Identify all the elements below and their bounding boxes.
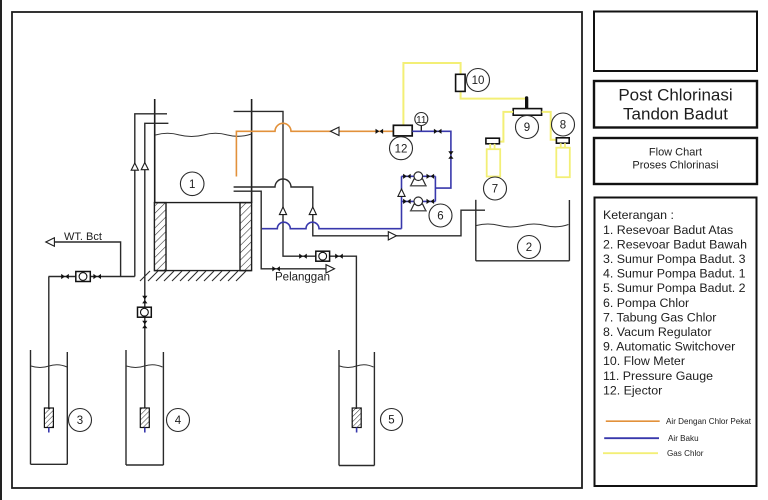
reservoir R1 base top line [154, 202, 251, 204]
legend box Keterangan [595, 198, 757, 487]
svg-text:9. Automatic Switchover: 9. Automatic Switchover [603, 340, 735, 354]
right panel title box [594, 81, 757, 128]
flow meter FM-3 on WT header [76, 272, 91, 282]
valve V-4b on well-4 pipe [142, 321, 147, 329]
pump manifold right header [434, 176, 436, 201]
valve bottom-right [427, 199, 435, 204]
svg-text:10: 10 [472, 75, 485, 87]
svg-text:8: 8 [560, 120, 566, 132]
reservoir R1 left wall [154, 99, 156, 203]
svg-text:Air Dengan Chlor Pekat: Air Dengan Chlor Pekat [666, 417, 752, 426]
well 3 tank [31, 350, 68, 464]
legend yellow sample [603, 449, 704, 458]
svg-text:WT. Bct: WT. Bct [64, 231, 102, 243]
valve top-left [403, 174, 411, 179]
vacuum regulator 8 on spare cylinder [556, 138, 569, 143]
node 1 circle [180, 172, 204, 196]
wire: R1 outlet to R2 [234, 179, 485, 236]
node 4 circle [167, 409, 190, 432]
svg-text:2: 2 [526, 242, 532, 254]
valve V-5b on well-5 line [335, 254, 343, 259]
well 4 tank [126, 350, 163, 465]
svg-text:9: 9 [524, 122, 530, 134]
legend orange sample [606, 417, 752, 426]
svg-text:2. Resevoar Badut Bawah: 2. Resevoar Badut Bawah [603, 237, 747, 251]
valve top-right [427, 174, 435, 179]
svg-text:Flow Chart: Flow Chart [649, 147, 702, 159]
wire: R1 outlet to customers [234, 191, 326, 269]
svg-text:Pelanggan: Pelanggan [275, 272, 330, 284]
svg-text:1: 1 [189, 179, 195, 191]
flow arrow up on riser x283 [279, 207, 286, 215]
flow arrow up on well-4 pipe [141, 163, 148, 170]
valve on blue line [434, 129, 442, 134]
svg-text:12. Ejector: 12. Ejector [603, 383, 662, 397]
svg-text:3. Sumur Pompa Badut. 3: 3. Sumur Pompa Badut. 3 [603, 252, 746, 266]
node 12 circle [390, 137, 413, 160]
flow arrow up on well-3 pipe [131, 163, 138, 170]
well 5 submersible pump [352, 408, 361, 433]
pump branch bottom [402, 200, 436, 202]
svg-text:6: 6 [437, 211, 443, 223]
svg-text:11: 11 [416, 115, 427, 126]
well 4 submersible pump [140, 408, 149, 433]
well 5 water level [340, 365, 374, 368]
pump P2 [410, 197, 427, 211]
reservoir R1 right wall [251, 99, 253, 203]
reservoir R1 base left column [154, 203, 166, 271]
svg-text:Tandon Badut: Tandon Badut [623, 105, 728, 124]
gas chlor yellow right branch [542, 112, 557, 140]
right panel subtitle box [594, 138, 757, 184]
node 3 circle [69, 409, 92, 432]
ground hatch under reservoir [140, 271, 246, 281]
right panel empty title block [594, 12, 757, 72]
valve bottom-left [403, 199, 411, 204]
node 9 circle [516, 116, 539, 139]
svg-text:8. Vacum Regulator: 8. Vacum Regulator [603, 325, 712, 339]
page left edge [0, 0, 2, 500]
valve on blue drop [448, 151, 453, 159]
flow meter FM10 body [456, 74, 466, 91]
svg-text:4: 4 [175, 415, 182, 427]
wire: well 5 discharge into R1 (riser x283) [234, 111, 357, 409]
svg-text:Air Baku: Air Baku [668, 434, 699, 443]
flow meter FM-5 on well-5 line [316, 251, 330, 261]
svg-text:4. Sumur Pompa Badut. 1: 4. Sumur Pompa Badut. 1 [603, 267, 746, 281]
svg-text:7: 7 [492, 184, 498, 196]
flow arrow left on orange line [331, 127, 340, 135]
pump P1 [410, 172, 427, 186]
valve V-4a on well-4 pipe [142, 296, 147, 304]
svg-text:5. Sumur Pompa Badut. 2: 5. Sumur Pompa Badut. 2 [603, 281, 746, 295]
svg-text:6. Pompa Chlor: 6. Pompa Chlor [603, 296, 689, 310]
wire: WT.Bct branch [55, 242, 121, 277]
gas chlor yellow main line [403, 63, 526, 125]
valve V-3b on WT header [93, 274, 101, 279]
main diagram frame [12, 12, 582, 488]
wire: WT.Bct header line [49, 276, 135, 278]
reservoir R2 tank [476, 200, 570, 261]
cylinder 7 neck [490, 144, 494, 149]
svg-text:Keterangan :: Keterangan : [603, 208, 674, 222]
vacuum regulator on cylinder 7 [486, 138, 500, 144]
ejector U12 body [393, 125, 412, 136]
arrow to Pelanggan [326, 265, 335, 273]
node 10 circle [467, 69, 490, 92]
valve V-5a on well-5 line [299, 254, 307, 259]
svg-text:Proses Chlorinasi: Proses Chlorinasi [632, 160, 718, 172]
reservoir R2 water level [476, 224, 568, 227]
flow arrow right to R2 [388, 232, 396, 240]
spare cylinder neck [561, 143, 565, 148]
gas chlor yellow left branch [499, 112, 513, 142]
svg-text:5: 5 [388, 415, 394, 427]
reservoir R1 base bottom line [154, 270, 251, 272]
node 6 circle [429, 204, 452, 227]
svg-text:Post Chlorinasi: Post Chlorinasi [618, 86, 732, 105]
valve V-P on customer line [272, 266, 280, 271]
node 2 circle [518, 236, 541, 259]
pump manifold left header [401, 176, 403, 228]
node 7 circle [484, 177, 507, 200]
blue suction line from R1 [262, 222, 402, 228]
wire: inlet pipe from well 4 into R1 [145, 123, 169, 408]
wire: inlet pipe from well 3 into R1 [135, 114, 167, 277]
svg-text:Gas Chlor: Gas Chlor [667, 449, 704, 458]
svg-text:3: 3 [77, 415, 83, 427]
automatic switchover U9 body [513, 109, 541, 116]
well 3 water level [31, 365, 67, 368]
blue water line ejector to pumps [412, 131, 451, 188]
svg-text:11. Pressure Gauge: 11. Pressure Gauge [603, 369, 713, 383]
valve on orange line [376, 129, 384, 134]
flow arrow up on riser x313 [309, 207, 316, 215]
legend blue sample [604, 434, 698, 443]
pump branch top [402, 175, 436, 177]
gas cylinder 7 [487, 149, 501, 176]
automatic switchover U9 riser [525, 96, 528, 108]
well 3 submersible pump [44, 408, 53, 433]
node 5 circle [381, 409, 403, 431]
reservoir R1 water level [156, 133, 252, 136]
flow meter FM-4 on well-4 pipe [138, 307, 152, 317]
well 5 tank [339, 350, 374, 466]
arrow to WT.Bct [46, 238, 55, 246]
well 4 water level [127, 365, 163, 368]
svg-text:7. Tabung Gas Chlor: 7. Tabung Gas Chlor [603, 310, 716, 324]
wire: well 3 riser [48, 277, 50, 410]
reservoir R1 base right column [240, 203, 252, 271]
svg-text:12: 12 [395, 143, 408, 155]
orange chlorinated water line [236, 123, 393, 176]
flow arrow up on suction header [398, 189, 405, 196]
valve V-3a on WT header [61, 274, 69, 279]
pressure gauge 11 [415, 113, 428, 132]
spare gas cylinder [556, 148, 570, 178]
svg-text:10. Flow Meter: 10. Flow Meter [603, 354, 685, 368]
svg-text:1. Resevoar Badut Atas: 1. Resevoar Badut Atas [603, 223, 733, 237]
node 8 circle [552, 113, 575, 136]
